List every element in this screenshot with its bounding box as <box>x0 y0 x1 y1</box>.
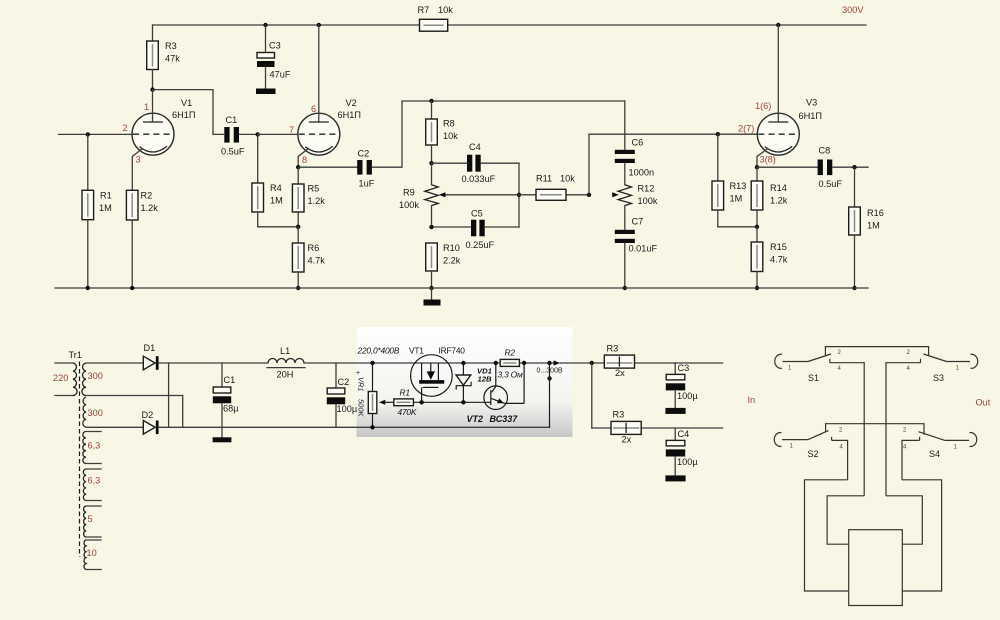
svg-text:300V: 300V <box>842 5 864 15</box>
svg-text:7: 7 <box>289 125 294 135</box>
wire outer loop right <box>902 480 942 591</box>
wire VT2 emitter vertical <box>523 363 525 403</box>
resistor R5 <box>292 167 325 227</box>
tube V3 6N1P <box>738 25 822 167</box>
svg-text:68µ: 68µ <box>223 404 239 414</box>
svg-text:8: 8 <box>302 155 307 165</box>
resistor R3 lower (2x) <box>611 410 641 445</box>
wire outer loop left <box>805 480 849 591</box>
diode D1 <box>143 343 158 370</box>
wire winding1 to D1 <box>86 362 143 364</box>
transistor VT2 BC337 <box>467 363 525 424</box>
svg-text:100µ: 100µ <box>337 404 358 414</box>
resistor R14 <box>751 167 788 227</box>
wire L1 to box <box>304 362 554 364</box>
capacitor C8 <box>757 146 868 189</box>
wire R11 junction up to V3 grid <box>589 134 757 195</box>
wire S3 contact4 down <box>886 363 921 496</box>
tube V2 6N1P <box>258 25 361 167</box>
svg-text:IRF740: IRF740 <box>439 346 466 356</box>
wire down to lower R3 line <box>591 363 593 428</box>
junction dot R16 bottom <box>852 286 856 290</box>
junction dot V2 grid <box>256 132 260 136</box>
junction dot C7 bottom <box>623 286 627 290</box>
svg-text:R7: R7 <box>418 5 430 15</box>
resistor R16 <box>849 167 884 288</box>
junction dot R11 left <box>517 193 521 197</box>
resistor R8 <box>426 101 459 163</box>
svg-text:6Н1П: 6Н1П <box>338 110 361 120</box>
svg-text:0.25uF: 0.25uF <box>466 240 495 250</box>
svg-text:1M: 1M <box>99 203 112 213</box>
svg-text:100µ: 100µ <box>677 457 698 467</box>
svg-text:10k: 10k <box>438 5 453 15</box>
svg-text:R16: R16 <box>867 208 884 218</box>
svg-text:10: 10 <box>87 548 97 558</box>
svg-text:0.5uF: 0.5uF <box>221 147 245 157</box>
resistor R2 <box>126 190 158 288</box>
junction dot VT1 gate <box>419 400 423 404</box>
svg-text:R14: R14 <box>770 183 787 193</box>
junction dot R5/R6 <box>296 225 300 229</box>
transformer box (output) <box>849 530 903 606</box>
svg-text:2.2k: 2.2k <box>443 255 461 265</box>
ground rail <box>55 287 868 289</box>
svg-text:220,0*400В: 220,0*400В <box>357 346 400 356</box>
wire D2 cathode return line <box>159 426 550 428</box>
svg-text:S1: S1 <box>808 373 819 383</box>
junction dot R1 top <box>86 132 90 136</box>
potentiometer R12 <box>618 184 658 207</box>
junction dot R10 bottom <box>429 286 433 290</box>
wire center tap <box>86 396 183 428</box>
svg-text:C4: C4 <box>678 429 690 439</box>
wire lower R3 line <box>592 427 723 429</box>
svg-text:V3: V3 <box>806 98 817 108</box>
svg-text:4.7k: 4.7k <box>308 255 326 265</box>
wire S2 contact4 down <box>832 440 848 479</box>
svg-text:Tr1: Tr1 <box>69 350 82 360</box>
svg-text:300: 300 <box>88 408 103 418</box>
wire S2-S4 link <box>826 424 924 435</box>
svg-text:220: 220 <box>53 373 68 383</box>
svg-text:6,3: 6,3 <box>88 441 101 451</box>
junction dot R11 right <box>587 193 591 197</box>
junction dot V1 plate <box>150 87 154 91</box>
svg-text:S4: S4 <box>929 449 940 459</box>
capacitor C2 electrolytic <box>327 363 358 427</box>
wire gate line <box>413 401 490 403</box>
capacitor C1 <box>221 115 258 157</box>
switch S2 <box>774 428 843 459</box>
svg-text:2x: 2x <box>615 368 625 378</box>
switch S1 <box>775 350 842 383</box>
junction dot R8 top <box>429 99 433 103</box>
junction dot R2 right <box>522 361 526 365</box>
zener diode VD1 <box>456 361 492 405</box>
svg-text:47uF: 47uF <box>270 70 291 80</box>
wire box output to R3 <box>560 362 675 364</box>
switch S4 <box>903 428 977 459</box>
svg-text:R9: R9 <box>403 188 415 198</box>
junction dot R2 bottom <box>130 286 134 290</box>
wire D1 cathode rail <box>159 362 268 364</box>
svg-text:VT2: VT2 <box>467 414 484 424</box>
tube V1 6N1P <box>123 90 196 191</box>
svg-text:100µ: 100µ <box>677 391 698 401</box>
svg-text:V2: V2 <box>346 98 357 108</box>
output node <box>537 360 563 427</box>
resistor R2 (inset) <box>498 348 523 380</box>
svg-text:R13: R13 <box>730 181 747 191</box>
wire S1-S3 top link <box>825 347 928 356</box>
svg-text:500K: 500K <box>357 399 366 418</box>
capacitor C3 (output) <box>665 363 698 414</box>
svg-text:R3: R3 <box>607 344 619 354</box>
svg-text:5: 5 <box>88 514 93 524</box>
svg-text:1M: 1M <box>730 193 743 203</box>
svg-text:C3: C3 <box>269 41 281 51</box>
svg-text:R8: R8 <box>443 119 455 129</box>
svg-text:6Н1П: 6Н1П <box>799 111 822 121</box>
svg-text:3,3 Ом: 3,3 Ом <box>498 370 523 380</box>
potentiometer R9 <box>399 163 438 227</box>
svg-text:100k: 100k <box>638 196 658 206</box>
capacitor C1 electrolytic <box>213 363 240 442</box>
wire upper R3 line to end <box>675 362 722 364</box>
R9 wiper arrow <box>439 192 519 197</box>
resistor R1 (inset) <box>379 388 417 418</box>
svg-text:1.2k: 1.2k <box>141 203 159 213</box>
capacitor C7 <box>615 206 658 288</box>
svg-text:D1: D1 <box>144 343 156 353</box>
svg-text:1.2k: 1.2k <box>770 195 788 205</box>
wire C2 out up to feedback line <box>373 101 625 167</box>
svg-text:C1: C1 <box>226 115 238 125</box>
svg-text:C1: C1 <box>224 375 236 385</box>
resistor R7 <box>418 5 454 31</box>
wire input to V1 grid <box>59 133 133 135</box>
svg-text:0.5uF: 0.5uF <box>819 179 843 189</box>
svg-text:C2: C2 <box>358 149 370 159</box>
junction dot V2 plate top <box>317 23 321 27</box>
svg-text:6,3: 6,3 <box>88 476 101 486</box>
svg-text:ВС337: ВС337 <box>490 414 519 424</box>
junction dot R13 top <box>716 132 720 136</box>
svg-text:2x: 2x <box>622 434 632 444</box>
junction dot R14/R15 <box>755 225 759 229</box>
junction dot R6 bottom <box>296 286 300 290</box>
svg-text:C2: C2 <box>338 377 350 387</box>
svg-text:3(8): 3(8) <box>760 155 776 165</box>
svg-text:R5: R5 <box>308 184 320 194</box>
svg-text:1M: 1M <box>867 220 880 230</box>
mosfet VT1 IRF740 <box>411 355 453 403</box>
junction dot R1 bottom <box>86 286 90 290</box>
svg-text:10k: 10k <box>443 131 458 141</box>
wire middle loop right <box>886 496 922 544</box>
svg-text:300: 300 <box>88 371 103 381</box>
svg-text:47k: 47k <box>165 54 180 64</box>
junction dot R16 top <box>852 165 856 169</box>
svg-text:R3: R3 <box>613 410 625 420</box>
svg-text:2(7): 2(7) <box>738 124 754 134</box>
wire S4 contact4 down <box>902 440 920 479</box>
svg-text:20H: 20H <box>277 370 294 380</box>
svg-text:R3: R3 <box>165 41 177 51</box>
regulator inset background <box>357 327 573 437</box>
switch S3 <box>907 350 978 383</box>
resistor R11 <box>519 174 589 201</box>
svg-text:1: 1 <box>144 102 149 112</box>
svg-text:1uF: 1uF <box>359 179 375 189</box>
svg-text:R4: R4 <box>270 183 282 193</box>
svg-text:VR1: VR1 <box>357 377 366 392</box>
svg-text:C4: C4 <box>469 142 481 152</box>
svg-text:0.033uF: 0.033uF <box>462 174 496 184</box>
ground symbol <box>424 288 441 306</box>
capacitor C3 <box>256 25 291 94</box>
svg-text:1M: 1M <box>270 195 283 205</box>
svg-text:C6: C6 <box>632 138 644 148</box>
svg-text:0...300В: 0...300В <box>537 368 563 375</box>
resistor R15 <box>751 227 788 288</box>
capacitor C4 (output) <box>665 428 698 481</box>
svg-text:1000n: 1000n <box>629 167 655 177</box>
svg-text:VT1: VT1 <box>409 346 424 356</box>
junction dot C3 top <box>263 23 267 27</box>
R12 wiper arrow <box>612 192 619 197</box>
resistor R3 upper (2x) <box>604 344 634 379</box>
resistor R3 <box>147 25 181 90</box>
svg-text:C3: C3 <box>678 363 690 373</box>
diode D2 <box>142 410 159 434</box>
svg-text:D2: D2 <box>142 410 154 420</box>
wire S1 contact4 down <box>830 363 864 496</box>
svg-text:Out: Out <box>976 398 991 408</box>
svg-text:1(6): 1(6) <box>755 101 771 111</box>
wire C4/C5 vertical <box>518 163 520 227</box>
svg-text:10k: 10k <box>560 174 575 184</box>
svg-text:100k: 100k <box>399 200 419 210</box>
junction dot R9/R10/C5 <box>429 225 433 229</box>
svg-text:6: 6 <box>311 104 316 114</box>
svg-text:R10: R10 <box>443 243 460 253</box>
junction dot R8/R9/C4 <box>429 161 433 165</box>
svg-text:C7: C7 <box>632 217 644 227</box>
junction dot R15 bottom <box>755 286 759 290</box>
wire: 300V top rail right segment <box>448 24 866 26</box>
svg-text:0.01uF: 0.01uF <box>629 243 658 253</box>
transformer Tr1 <box>53 350 103 570</box>
resistor R10 <box>426 243 461 288</box>
svg-text:4.7k: 4.7k <box>770 254 788 264</box>
junction dot R2 left <box>494 361 498 365</box>
capacitor C2 <box>298 149 375 189</box>
svg-text:S3: S3 <box>933 373 944 383</box>
junction dot V3 cathode <box>755 165 759 169</box>
inductor L1 <box>267 346 305 380</box>
svg-text:R11: R11 <box>536 174 552 184</box>
svg-text:C8: C8 <box>819 146 831 156</box>
capacitor C6 <box>615 101 654 185</box>
potentiometer VR1 <box>356 361 377 430</box>
svg-text:+: + <box>356 370 360 377</box>
resistor R4 <box>252 134 298 226</box>
svg-text:S2: S2 <box>808 449 819 459</box>
wire: 300V top rail left segment <box>153 24 421 26</box>
junction dot V2 cathode <box>296 165 300 169</box>
svg-text:V1: V1 <box>181 98 192 108</box>
resistor R13 <box>712 134 757 227</box>
svg-text:6Н1П: 6Н1П <box>172 110 195 120</box>
svg-text:In: In <box>748 395 756 405</box>
svg-text:R1: R1 <box>100 191 112 201</box>
svg-text:R15: R15 <box>770 242 787 252</box>
wire winding2 to D2 <box>86 426 143 428</box>
svg-text:L1: L1 <box>280 346 290 356</box>
svg-text:470K: 470K <box>398 407 417 417</box>
wire D1-D2 vertical link <box>168 363 170 427</box>
resistor R6 <box>292 227 325 288</box>
svg-text:R6: R6 <box>308 243 320 253</box>
svg-text:R12: R12 <box>638 184 655 194</box>
svg-text:1.2k: 1.2k <box>308 196 326 206</box>
svg-text:R2: R2 <box>505 348 516 358</box>
svg-text:C5: C5 <box>471 209 483 219</box>
resistor R1 <box>82 134 112 288</box>
svg-text:2: 2 <box>123 123 128 133</box>
junction dot R3 feed <box>590 361 594 365</box>
svg-text:12В: 12В <box>478 375 493 384</box>
capacitor C5 <box>432 209 520 251</box>
capacitor C4 <box>432 142 520 184</box>
wire V1 plate to C1 <box>153 90 224 135</box>
svg-text:R1: R1 <box>400 388 410 398</box>
svg-text:3: 3 <box>136 155 141 165</box>
wire middle loop left <box>827 496 864 544</box>
svg-text:R2: R2 <box>141 191 153 201</box>
junction dot V3 plate top <box>776 23 780 27</box>
